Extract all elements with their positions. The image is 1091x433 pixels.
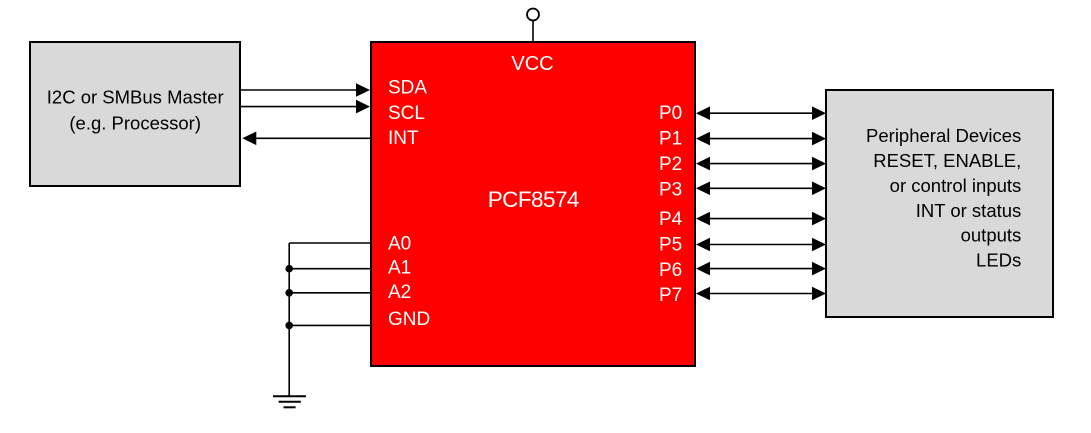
- wire P1 (bidirectional): [696, 132, 826, 146]
- svg-text:P5: P5: [659, 234, 682, 255]
- svg-text:INT or status: INT or status: [916, 200, 1022, 221]
- svg-text:SDA: SDA: [388, 78, 427, 99]
- block: Peripheral Devices: [826, 90, 1053, 317]
- wire P6 (bidirectional): [696, 262, 826, 276]
- svg-text:GND: GND: [388, 309, 430, 330]
- svg-text:PCF8574: PCF8574: [488, 187, 579, 212]
- wire GND: [289, 324, 370, 326]
- junction at A1: [285, 265, 293, 273]
- wire P0 (bidirectional): [696, 106, 826, 120]
- svg-text:P0: P0: [659, 103, 682, 124]
- wire: address bus vertical to ground: [288, 243, 290, 396]
- svg-text:LEDs: LEDs: [976, 250, 1021, 271]
- svg-text:P2: P2: [659, 154, 682, 175]
- wire SDA (master to PCF8574): [241, 83, 370, 97]
- svg-text:outputs: outputs: [961, 225, 1022, 246]
- svg-text:P4: P4: [659, 209, 683, 230]
- wire P2 (bidirectional): [696, 157, 826, 171]
- wire P3 (bidirectional): [696, 182, 826, 196]
- power symbol VCC: [527, 9, 539, 42]
- svg-text:P6: P6: [659, 260, 682, 281]
- svg-text:RESET, ENABLE,: RESET, ENABLE,: [873, 150, 1021, 171]
- wire P5 (bidirectional): [696, 238, 826, 252]
- wire A1: [289, 268, 370, 270]
- junction at GND: [285, 322, 293, 330]
- svg-text:A1: A1: [388, 258, 411, 279]
- svg-text:(e.g. Processor): (e.g. Processor): [69, 112, 201, 133]
- svg-text:P3: P3: [659, 180, 682, 201]
- block: I2C or SMBus Master: [30, 42, 240, 186]
- svg-text:I2C or SMBus Master: I2C or SMBus Master: [47, 87, 224, 108]
- svg-text:or control inputs: or control inputs: [890, 175, 1022, 196]
- block: PCF8574 (U1): [371, 42, 695, 366]
- wire P4 (bidirectional): [696, 212, 826, 226]
- wire INT (PCF8574 to master): [242, 132, 370, 146]
- svg-text:Peripheral Devices: Peripheral Devices: [866, 125, 1021, 146]
- svg-text:A2: A2: [388, 282, 411, 303]
- svg-text:P7: P7: [659, 285, 682, 306]
- svg-text:VCC: VCC: [511, 53, 553, 75]
- junction at A2: [285, 289, 293, 297]
- svg-text:P1: P1: [659, 129, 682, 150]
- wire A0: [289, 242, 370, 244]
- wire P7 (bidirectional): [696, 287, 826, 301]
- ground symbol: [273, 396, 306, 407]
- svg-text:SCL: SCL: [388, 103, 425, 124]
- svg-text:INT: INT: [388, 128, 419, 149]
- wire A2: [289, 292, 370, 294]
- wire SCL (master to PCF8574): [241, 100, 370, 114]
- svg-text:A0: A0: [388, 233, 411, 254]
